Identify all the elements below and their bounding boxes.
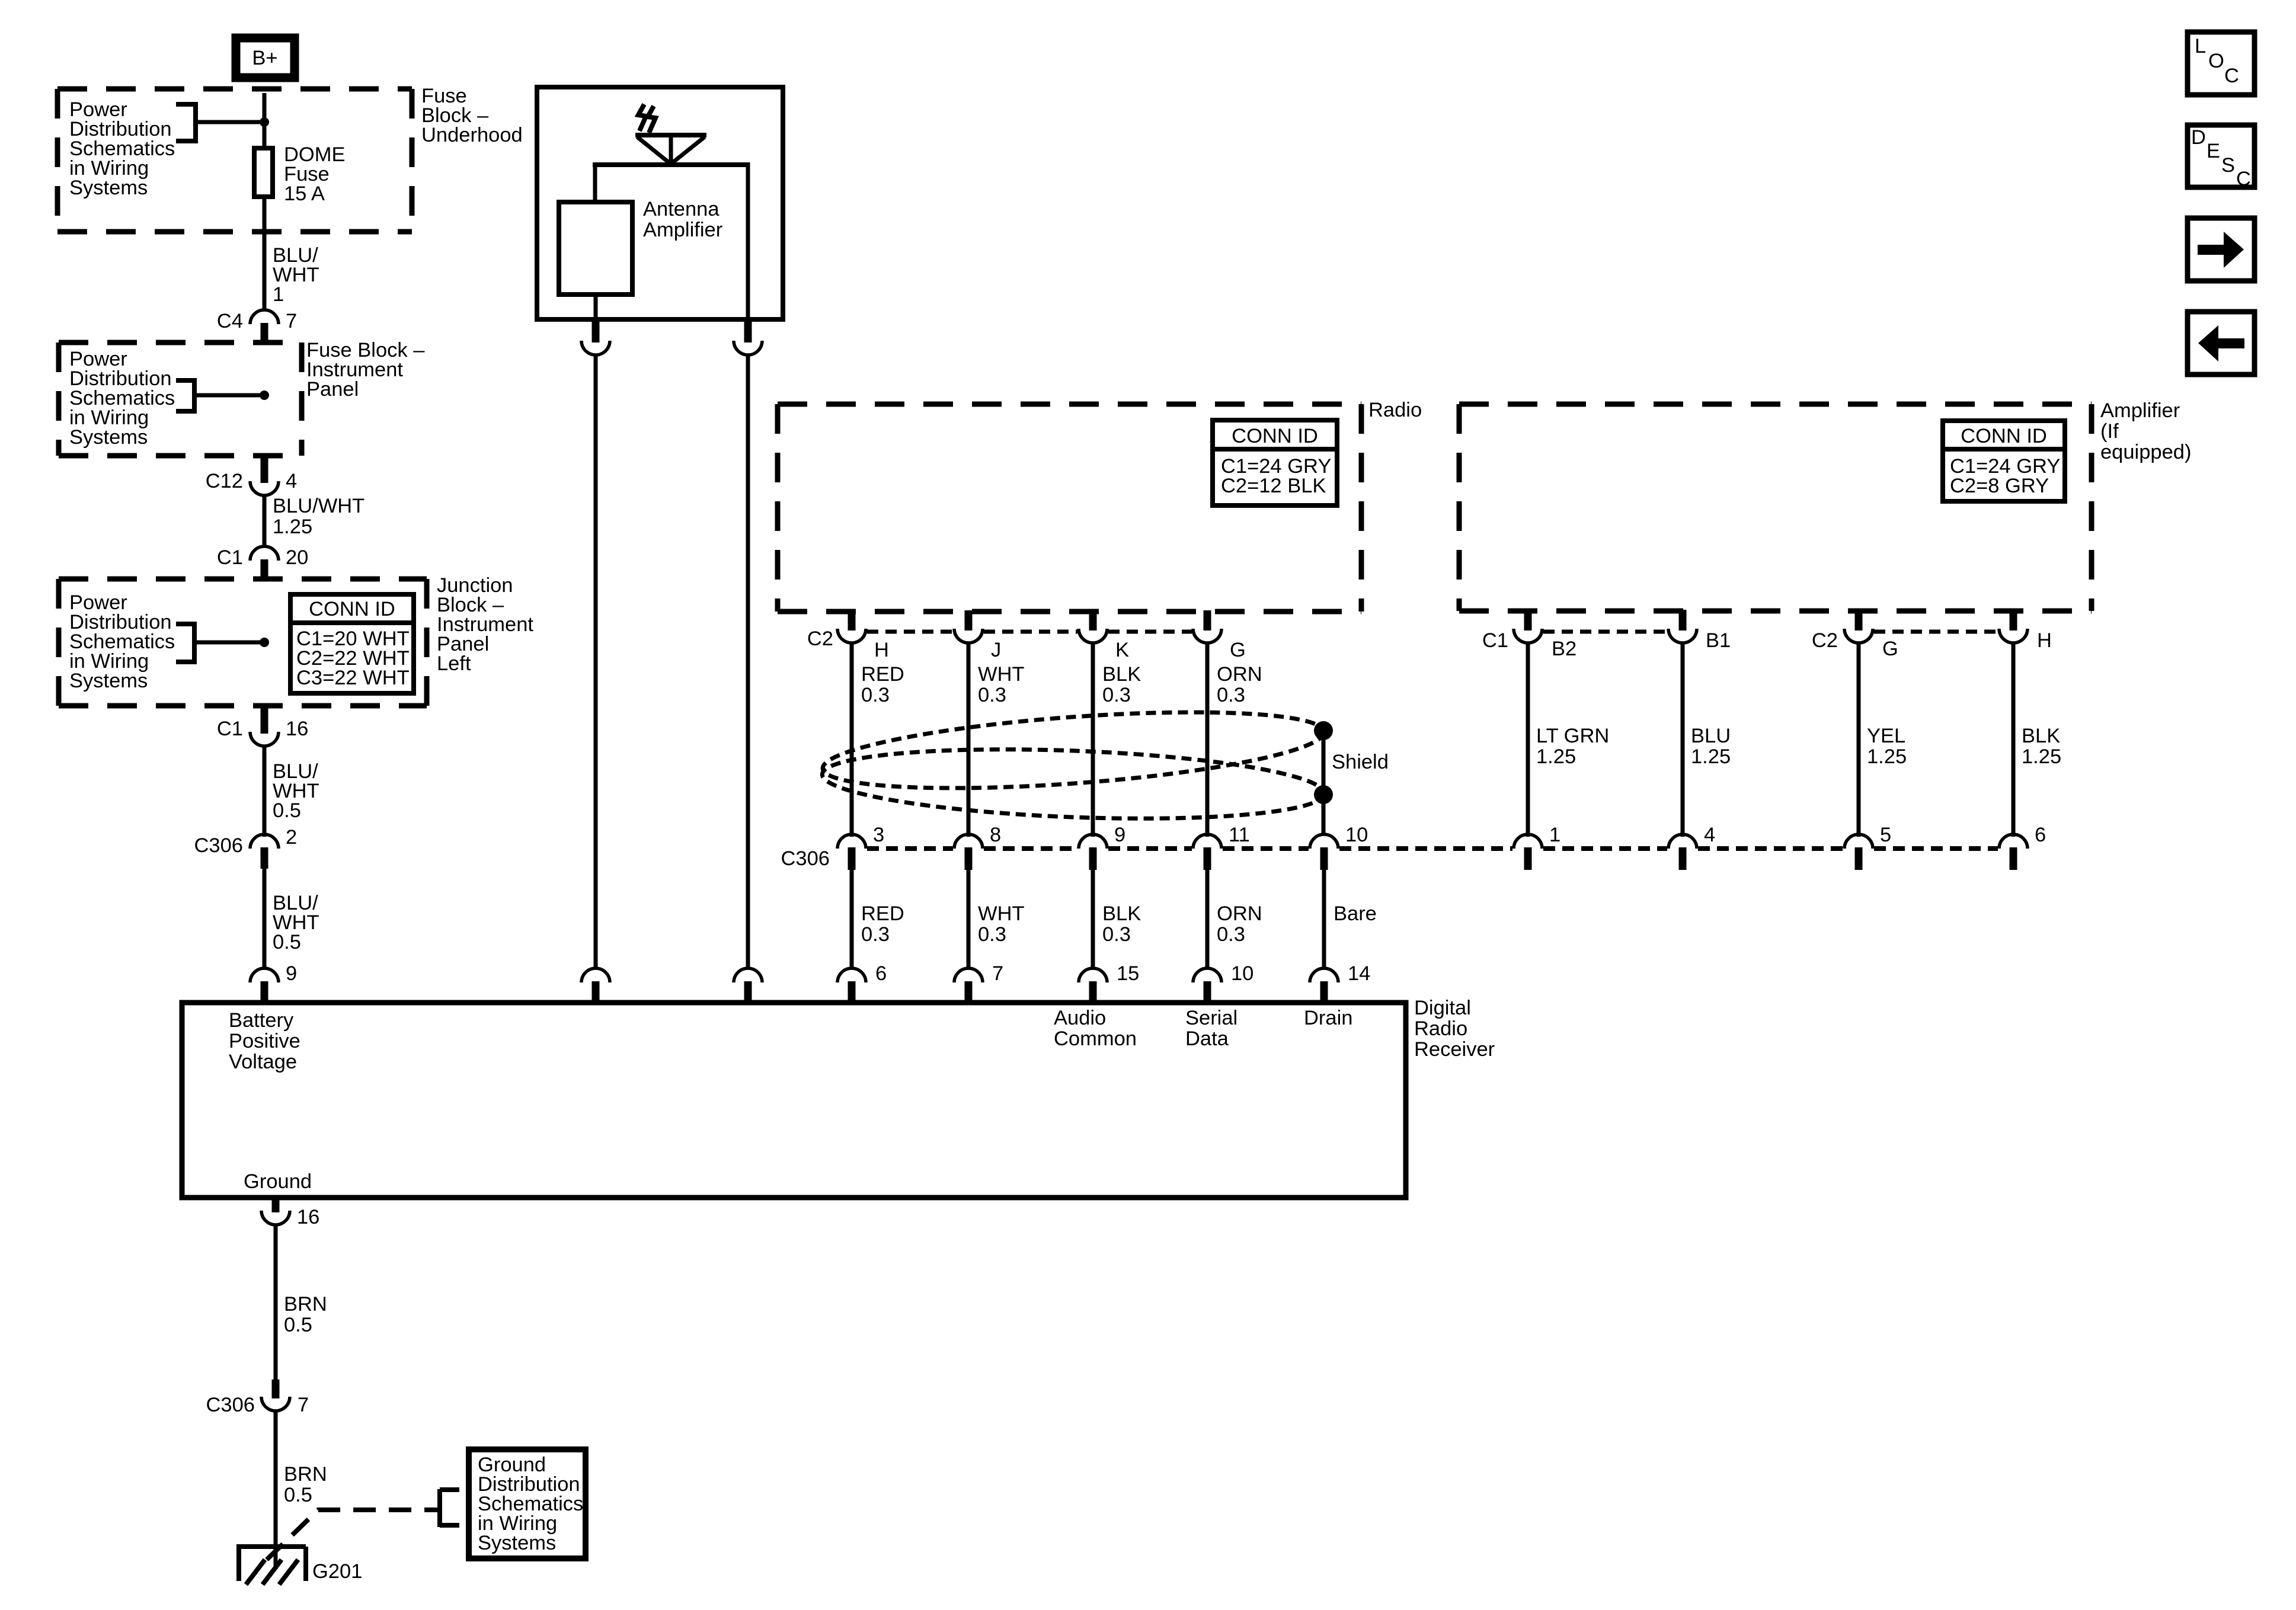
svg-text:C: C: [2236, 168, 2251, 190]
svg-text:Systems: Systems: [69, 670, 148, 692]
svg-text:Digital: Digital: [1414, 997, 1471, 1019]
svg-text:C4: C4: [217, 310, 243, 332]
svg-text:0.5: 0.5: [273, 799, 301, 822]
svg-text:C: C: [2224, 65, 2239, 87]
svg-text:C306: C306: [194, 834, 243, 857]
svg-text:1.25: 1.25: [1691, 745, 1731, 768]
svg-text:0.3: 0.3: [1217, 684, 1245, 706]
svg-text:14: 14: [1348, 962, 1370, 985]
svg-text:0.3: 0.3: [1102, 923, 1131, 946]
svg-text:O: O: [2208, 50, 2224, 72]
svg-text:BLK: BLK: [2022, 725, 2060, 747]
svg-text:C2=8 GRY: C2=8 GRY: [1950, 475, 2049, 497]
svg-text:Battery: Battery: [229, 1009, 294, 1032]
svg-text:E: E: [2207, 140, 2220, 162]
svg-text:YEL: YEL: [1867, 725, 1905, 747]
svg-text:16: 16: [297, 1206, 319, 1228]
svg-text:Amplifier: Amplifier: [2100, 399, 2180, 422]
svg-text:CONN ID: CONN ID: [309, 598, 395, 620]
svg-text:8: 8: [990, 824, 1001, 846]
svg-text:Antenna: Antenna: [643, 198, 720, 220]
svg-text:BLK: BLK: [1102, 663, 1141, 686]
svg-text:BRN: BRN: [284, 1463, 327, 1486]
svg-text:RED: RED: [861, 663, 904, 686]
svg-text:BLK: BLK: [1102, 902, 1141, 925]
svg-text:15: 15: [1117, 962, 1139, 985]
svg-text:4: 4: [286, 470, 297, 492]
svg-text:9: 9: [1114, 824, 1125, 846]
svg-text:Systems: Systems: [69, 177, 148, 199]
svg-text:0.3: 0.3: [978, 684, 1006, 706]
svg-text:C1: C1: [217, 718, 243, 740]
svg-text:7: 7: [298, 1394, 309, 1416]
svg-text:Ground: Ground: [244, 1170, 312, 1193]
svg-text:Systems: Systems: [478, 1532, 556, 1554]
svg-text:0.3: 0.3: [861, 684, 890, 706]
svg-text:0.3: 0.3: [861, 923, 890, 946]
svg-text:C2: C2: [807, 628, 833, 650]
svg-text:6: 6: [875, 962, 887, 985]
svg-text:ORN: ORN: [1217, 902, 1262, 925]
svg-text:C306: C306: [206, 1394, 255, 1416]
svg-text:2: 2: [286, 826, 297, 849]
svg-text:Radio: Radio: [1368, 399, 1422, 421]
svg-text:H: H: [874, 639, 889, 661]
svg-text:WHT: WHT: [978, 902, 1025, 925]
svg-text:16: 16: [286, 718, 308, 740]
svg-text:0.3: 0.3: [1102, 684, 1131, 706]
svg-text:BLU: BLU: [1691, 725, 1731, 747]
svg-text:L: L: [2195, 35, 2206, 57]
svg-text:7: 7: [992, 962, 1003, 985]
svg-text:Bare: Bare: [1334, 902, 1377, 925]
svg-text:B+: B+: [252, 47, 277, 69]
svg-text:10: 10: [1231, 962, 1253, 985]
svg-text:1: 1: [273, 283, 284, 306]
svg-text:K: K: [1115, 639, 1129, 661]
svg-text:Audio: Audio: [1054, 1007, 1106, 1029]
svg-text:Left: Left: [437, 652, 471, 675]
svg-text:B2: B2: [1552, 638, 1576, 660]
svg-text:Voltage: Voltage: [229, 1051, 297, 1073]
svg-text:ORN: ORN: [1217, 663, 1262, 686]
svg-text:0.3: 0.3: [978, 923, 1006, 946]
svg-text:Common: Common: [1054, 1028, 1137, 1050]
svg-text:0.3: 0.3: [1217, 923, 1245, 946]
svg-text:6: 6: [2035, 824, 2046, 846]
svg-text:5: 5: [1880, 824, 1891, 846]
svg-text:1.25: 1.25: [273, 516, 312, 538]
svg-text:(If: (If: [2100, 420, 2119, 443]
svg-text:7: 7: [286, 310, 297, 332]
svg-text:G201: G201: [312, 1560, 362, 1583]
svg-text:Radio: Radio: [1414, 1017, 1467, 1040]
svg-text:C306: C306: [781, 847, 830, 870]
svg-text:C1: C1: [1482, 629, 1508, 652]
svg-text:C2=12 BLK: C2=12 BLK: [1221, 475, 1326, 497]
svg-text:BRN: BRN: [284, 1293, 327, 1315]
svg-text:9: 9: [286, 962, 297, 985]
svg-text:C3=22 WHT: C3=22 WHT: [296, 667, 410, 689]
svg-text:C2: C2: [1812, 629, 1838, 652]
svg-text:1.25: 1.25: [1867, 745, 1907, 768]
svg-text:0.5: 0.5: [284, 1314, 312, 1336]
svg-text:15 A: 15 A: [284, 183, 325, 205]
svg-text:Data: Data: [1185, 1028, 1229, 1050]
svg-text:Systems: Systems: [69, 426, 148, 449]
svg-text:G: G: [1882, 638, 1898, 660]
svg-text:0.5: 0.5: [273, 931, 301, 953]
svg-text:S: S: [2221, 154, 2235, 177]
svg-text:B1: B1: [1706, 629, 1731, 652]
svg-text:H: H: [2037, 629, 2052, 652]
svg-text:1: 1: [1549, 824, 1560, 846]
svg-text:4: 4: [1704, 824, 1715, 846]
svg-text:Shield: Shield: [1332, 751, 1389, 773]
svg-text:J: J: [991, 639, 1001, 661]
svg-text:Amplifier: Amplifier: [643, 219, 722, 241]
svg-text:WHT: WHT: [978, 663, 1025, 686]
svg-text:10: 10: [1345, 824, 1368, 846]
svg-text:3: 3: [873, 824, 884, 846]
svg-text:Receiver: Receiver: [1414, 1038, 1495, 1061]
svg-text:LT GRN: LT GRN: [1536, 725, 1609, 747]
svg-text:CONN ID: CONN ID: [1961, 425, 2047, 447]
svg-text:Serial: Serial: [1185, 1007, 1237, 1029]
svg-text:20: 20: [286, 546, 308, 569]
svg-text:equipped): equipped): [2100, 441, 2191, 463]
svg-text:RED: RED: [861, 902, 904, 925]
svg-text:Panel: Panel: [306, 378, 359, 401]
svg-text:C1: C1: [217, 546, 243, 569]
svg-text:D: D: [2191, 126, 2206, 149]
svg-text:Underhood: Underhood: [421, 124, 523, 146]
svg-text:Positive: Positive: [229, 1030, 300, 1052]
svg-text:Drain: Drain: [1304, 1007, 1352, 1029]
svg-text:1.25: 1.25: [1536, 745, 1576, 768]
svg-text:CONN ID: CONN ID: [1232, 425, 1318, 447]
svg-text:0.5: 0.5: [284, 1484, 312, 1506]
svg-text:BLU/WHT: BLU/WHT: [273, 495, 364, 517]
svg-text:C12: C12: [206, 470, 243, 492]
svg-text:1.25: 1.25: [2022, 745, 2061, 768]
svg-text:G: G: [1230, 639, 1246, 661]
svg-text:11: 11: [1229, 824, 1250, 846]
